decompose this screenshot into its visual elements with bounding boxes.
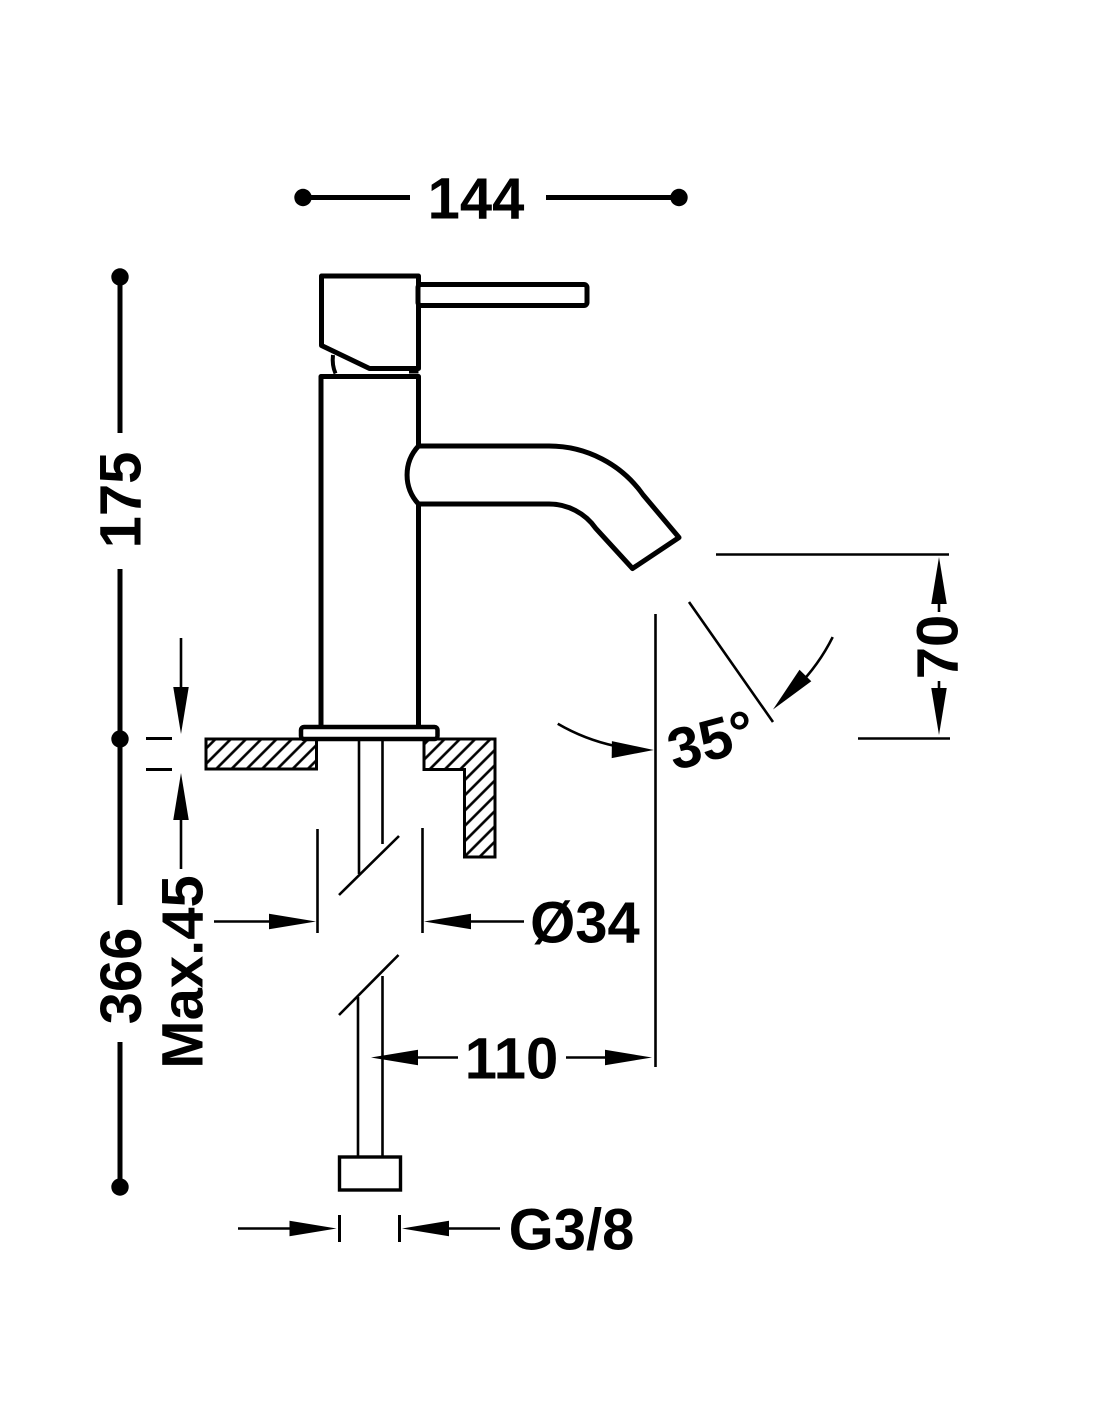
spout angle line: [689, 602, 773, 722]
dimension O34 left arrow: [214, 920, 272, 923]
faucet body column: [321, 377, 419, 728]
diameter extension line right: [421, 828, 424, 933]
dimension 175 upper line: [118, 283, 123, 433]
head lower right ledge: [409, 371, 419, 374]
dimension 144 left dot: [294, 189, 311, 206]
dimension O34 right arrow: [424, 914, 471, 930]
angle arc arrow left: [558, 724, 615, 746]
dimension 175 top dot: [111, 268, 128, 285]
dimension 144 right line: [546, 195, 674, 200]
dimension 70 top reference line: [716, 553, 949, 556]
svg-text:175: 175: [89, 452, 154, 549]
svg-text:G3/8: G3/8: [509, 1198, 635, 1263]
dimension 366 lower line: [118, 1042, 123, 1181]
svg-text:366: 366: [89, 928, 154, 1025]
svg-text:144: 144: [428, 167, 525, 232]
dimension 110 right arrow: [566, 1056, 607, 1059]
dimension 70 bottom reference line: [858, 737, 950, 740]
dimension G3/8 right tick: [398, 1215, 401, 1242]
dimension G3/8 left tick: [338, 1215, 341, 1242]
head neck line: [333, 355, 336, 374]
faucet head: [322, 276, 419, 369]
angle arc arrow right: [797, 637, 833, 687]
dimension 175 lower line: [118, 569, 123, 733]
svg-text:110: 110: [465, 1027, 559, 1092]
dimension 110 left arrow: [416, 1056, 458, 1059]
supply pipe right line: [381, 739, 384, 844]
dimension 366 upper line: [118, 745, 123, 905]
dimension 144 left line: [308, 195, 410, 200]
shared dot at countertop level: [111, 730, 128, 747]
base flange: [301, 727, 438, 739]
dimension 70 up arrow: [931, 557, 947, 604]
diameter extension line left: [316, 829, 319, 933]
supply pipe left line: [358, 739, 361, 874]
svg-text:Max.45: Max.45: [151, 875, 216, 1068]
threaded rod left line: [357, 997, 360, 1157]
connection nut: [340, 1157, 401, 1190]
dimension G3/8 right arrow: [402, 1221, 449, 1237]
dimension G3/8 left arrow: [238, 1227, 292, 1230]
lower break mark: [339, 955, 399, 1015]
countertop right L-section: [424, 739, 495, 857]
svg-text:Ø34: Ø34: [530, 891, 640, 956]
dimension 366 bottom dot: [111, 1178, 128, 1195]
svg-text:70: 70: [906, 615, 971, 680]
spout: [407, 446, 679, 569]
countertop surface dashes: [146, 737, 172, 740]
dimension 144 right dot: [670, 189, 687, 206]
threaded rod right line: [381, 976, 384, 1157]
countertop thickness up arrow: [173, 773, 189, 820]
upper break mark: [339, 836, 399, 895]
countertop thickness down arrow: [180, 638, 183, 695]
countertop left section: [206, 739, 317, 769]
lever handle: [418, 285, 587, 306]
dimension 70 down arrow: [938, 681, 941, 692]
spout tip vertical extension line: [654, 614, 657, 1067]
